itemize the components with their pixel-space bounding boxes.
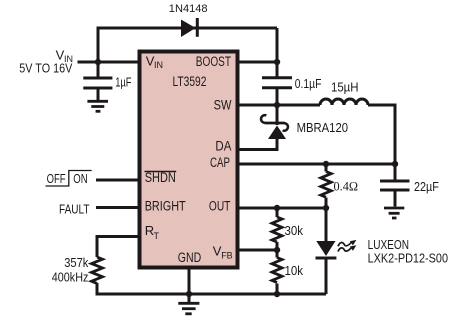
svg-text:FAULT: FAULT xyxy=(59,203,90,217)
wire VIN input stub xyxy=(78,61,140,64)
wire inductor drop to CAP rail xyxy=(394,104,397,165)
wire BOOST riser to C2 xyxy=(276,28,279,77)
svg-text:MBRA120: MBRA120 xyxy=(297,121,348,135)
junction VFB node xyxy=(274,247,280,253)
svg-text:22µF: 22µF xyxy=(414,180,439,194)
wire SW pin xyxy=(238,104,320,107)
svg-text:ON: ON xyxy=(73,172,87,186)
svg-text:0.4Ω: 0.4Ω xyxy=(334,179,359,193)
svg-text:5V TO 16V: 5V TO 16V xyxy=(19,62,73,76)
IC U1 LT3592 body xyxy=(140,52,238,268)
svg-text:BRIGHT: BRIGHT xyxy=(145,198,186,213)
svg-text:SW: SW xyxy=(214,97,232,112)
svg-text:DA: DA xyxy=(215,138,231,153)
LED D3 LUXEON xyxy=(316,208,337,294)
node VIN label xyxy=(19,48,73,76)
diode D1 1N4148 xyxy=(181,18,197,37)
junction OUT/R2 node xyxy=(274,205,280,211)
svg-text:GND: GND xyxy=(178,250,202,265)
diode D2 MBRA120 xyxy=(261,105,288,151)
pin label SHDN with overline xyxy=(145,170,177,185)
pin label VFB xyxy=(213,243,233,260)
wire RT pin xyxy=(97,235,139,257)
label OFF ON step xyxy=(46,171,92,187)
wire VFB pin xyxy=(238,249,277,252)
svg-text:OFF: OFF xyxy=(47,172,66,186)
svg-text:T: T xyxy=(154,231,160,241)
resistor R3 10k xyxy=(272,250,282,294)
svg-text:CAP: CAP xyxy=(210,155,230,170)
wire BRIGHT pin xyxy=(96,206,139,209)
junction GND node xyxy=(186,291,192,297)
resistor R4 357k xyxy=(92,257,103,296)
wire OUT pin rail xyxy=(238,207,326,210)
resistor R1 0.4ohm xyxy=(321,164,331,208)
inductor L1 15uH xyxy=(320,99,397,105)
svg-text:0.1µF: 0.1µF xyxy=(295,77,322,91)
wire GND pin drop xyxy=(188,269,191,294)
svg-text:LXK2-PD12-S00: LXK2-PD12-S00 xyxy=(368,252,448,266)
wire vertical VIN node riser xyxy=(97,27,100,63)
svg-text:SHDN: SHDN xyxy=(145,170,176,185)
svg-text:30k: 30k xyxy=(285,224,304,238)
junction SW node xyxy=(274,102,280,108)
wire SHDN pin xyxy=(96,179,139,182)
wire top rail from VIN node to BOOST node xyxy=(98,27,277,30)
svg-text:LT3592: LT3592 xyxy=(173,74,207,89)
wire BOOST pin xyxy=(238,61,277,64)
label 357k 400kHz xyxy=(52,256,89,285)
junction CAP/R1 node xyxy=(323,161,329,167)
ground symbol at C3 xyxy=(384,208,404,218)
svg-text:10k: 10k xyxy=(285,264,304,278)
capacitor C2 0.1uF xyxy=(262,78,292,105)
svg-text:OUT: OUT xyxy=(209,198,231,213)
svg-text:357k: 357k xyxy=(64,256,89,270)
wire CAP pin rail xyxy=(238,163,395,166)
svg-text:BOOST: BOOST xyxy=(196,54,231,69)
junction VIN node xyxy=(95,59,101,65)
LED light arrows xyxy=(338,240,356,252)
resistor R2 30k xyxy=(272,208,282,250)
pin label RT xyxy=(145,223,160,241)
junction OUT/LED node xyxy=(323,205,329,211)
capacitor C1 1uF xyxy=(83,62,112,100)
junction CAP/C3 node xyxy=(392,161,398,167)
svg-text:LUXEON: LUXEON xyxy=(368,238,409,252)
wire bottom ground rail xyxy=(97,293,326,296)
svg-text:1N4148: 1N4148 xyxy=(169,3,208,15)
svg-text:FB: FB xyxy=(221,251,233,261)
pin label VIN xyxy=(146,54,163,71)
junction BOOST node xyxy=(274,59,280,65)
svg-text:1µF: 1µF xyxy=(115,76,132,90)
svg-text:400kHz: 400kHz xyxy=(52,271,89,285)
ground symbol main xyxy=(178,294,199,314)
svg-text:IN: IN xyxy=(154,60,163,70)
ground symbol at C1 xyxy=(87,101,108,111)
wire DA pin xyxy=(238,148,279,151)
svg-text:15µH: 15µH xyxy=(331,81,359,95)
capacitor C3 22uF xyxy=(380,164,410,207)
junction 10k bottom node xyxy=(274,291,280,297)
